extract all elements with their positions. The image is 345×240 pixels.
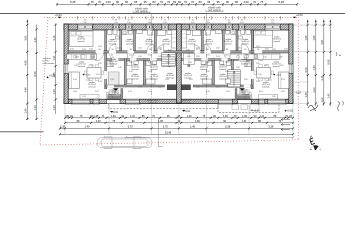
level mark entry right xyxy=(182,110,191,113)
svg-text:2,05: 2,05 xyxy=(148,71,152,73)
svg-text:2,05: 2,05 xyxy=(138,56,142,58)
dimension lines bottom xyxy=(59,117,294,136)
svg-text:laminalt: laminalt xyxy=(242,42,249,45)
svg-text:laminalt: laminalt xyxy=(78,65,85,68)
svg-text:2,05: 2,05 xyxy=(148,91,152,93)
svg-text:2,05: 2,05 xyxy=(165,79,169,81)
svg-text:70: 70 xyxy=(160,0,164,4)
svg-text:2,05: 2,05 xyxy=(189,79,193,81)
svg-text:2,05: 2,05 xyxy=(129,55,133,57)
svg-text:2,05: 2,05 xyxy=(206,62,210,64)
kitchen counters xyxy=(67,54,280,59)
svg-text:2,05: 2,05 xyxy=(226,91,230,93)
svg-text:1,31: 1,31 xyxy=(259,114,265,118)
svg-text:1,30: 1,30 xyxy=(33,105,37,111)
svg-text:2,05: 2,05 xyxy=(272,96,276,98)
svg-text:1,35: 1,35 xyxy=(94,114,100,118)
svg-text:2,05: 2,05 xyxy=(206,91,210,93)
exterior wall right xyxy=(289,24,293,104)
entry labels xyxy=(112,89,245,94)
svg-text:150: 150 xyxy=(163,22,166,24)
svg-text:2,05: 2,05 xyxy=(284,49,288,51)
exterior wall top xyxy=(64,24,293,30)
svg-text:laminalt: laminalt xyxy=(262,85,269,88)
svg-text:2,05: 2,05 xyxy=(256,63,260,65)
svg-text:1,65: 1,65 xyxy=(312,35,316,41)
svg-text:2,05: 2,05 xyxy=(216,56,220,58)
windows top wall xyxy=(76,24,281,30)
svg-text:2,05: 2,05 xyxy=(158,87,162,89)
svg-text:90: 90 xyxy=(130,49,132,51)
window left wall xyxy=(64,64,69,74)
svg-text:150: 150 xyxy=(148,22,151,24)
svg-text:90: 90 xyxy=(226,0,230,4)
terrace furniture xyxy=(232,105,259,111)
svg-text:1,02: 1,02 xyxy=(320,97,324,103)
svg-text:2,05: 2,05 xyxy=(280,65,284,67)
entry benches xyxy=(108,95,251,99)
entrance openings xyxy=(107,99,252,103)
svg-text:laminalt: laminalt xyxy=(109,42,116,45)
svg-text:80: 80 xyxy=(198,0,202,4)
exterior wall bottom xyxy=(64,99,293,103)
svg-text:2,05: 2,05 xyxy=(206,55,210,57)
svg-text:2,05: 2,05 xyxy=(279,57,283,59)
svg-text:70: 70 xyxy=(98,0,102,4)
svg-text:2,05: 2,05 xyxy=(148,55,152,57)
svg-text:2,05: 2,05 xyxy=(89,49,93,51)
svg-text:90: 90 xyxy=(99,49,101,51)
svg-text:1,40: 1,40 xyxy=(85,125,91,129)
svg-text:2,05: 2,05 xyxy=(75,57,79,59)
svg-text:+0,00: +0,00 xyxy=(85,74,91,76)
svg-text:2,05: 2,05 xyxy=(110,66,114,68)
hearth block left xyxy=(167,85,176,90)
svg-text:2,05: 2,05 xyxy=(82,96,86,98)
canopy dashed xyxy=(109,104,218,109)
svg-text:+0,00: +0,00 xyxy=(49,74,56,77)
svg-text:2,05: 2,05 xyxy=(98,81,102,83)
svg-text:szélfogó: szélfogó xyxy=(239,93,246,95)
interior wall h1 xyxy=(69,51,288,54)
boundary red bottom xyxy=(40,140,298,145)
svg-text:90: 90 xyxy=(112,49,114,51)
svg-text:laminalt: laminalt xyxy=(151,77,158,80)
svg-text:+0,00: +0,00 xyxy=(296,13,303,17)
svg-text:5,75: 5,75 xyxy=(128,125,134,129)
svg-text:+0,00: +0,00 xyxy=(55,13,62,17)
svg-text:75: 75 xyxy=(260,0,264,4)
svg-text:+0,00: +0,00 xyxy=(276,74,282,76)
svg-text:2,05: 2,05 xyxy=(187,56,191,58)
svg-text:nyomvonala: nyomvonala xyxy=(43,63,56,65)
dimension values top xyxy=(70,0,284,4)
svg-text:2,05: 2,05 xyxy=(110,57,114,59)
svg-text:2,05: 2,05 xyxy=(128,91,132,93)
dimension text left xyxy=(24,35,56,114)
svg-text:1,00: 1,00 xyxy=(105,0,111,4)
room labels xyxy=(77,37,282,96)
svg-text:1,40: 1,40 xyxy=(190,125,196,129)
dimension lines left xyxy=(26,20,57,121)
svg-text:laminalt: laminalt xyxy=(219,77,226,80)
svg-text:4,46: 4,46 xyxy=(24,87,28,93)
svg-text:1,40: 1,40 xyxy=(96,119,102,123)
level dots living xyxy=(83,74,282,77)
svg-text:70: 70 xyxy=(167,0,171,4)
window right wall xyxy=(288,64,293,74)
beds xyxy=(69,30,272,47)
svg-text:2,05: 2,05 xyxy=(188,62,192,64)
svg-text:2,05: 2,05 xyxy=(117,48,121,50)
svg-text:2,05: 2,05 xyxy=(236,67,240,69)
boundary red top xyxy=(44,17,298,19)
svg-text:5,75: 5,75 xyxy=(163,125,169,129)
leader arrows right xyxy=(281,119,290,131)
svg-text:+0,05: +0,05 xyxy=(287,110,294,113)
svg-text:2,05: 2,05 xyxy=(281,91,285,93)
svg-text:90: 90 xyxy=(160,49,162,51)
svg-text:1,31: 1,31 xyxy=(52,55,56,61)
entry door swing left xyxy=(107,93,114,100)
svg-text:2,05: 2,05 xyxy=(168,50,172,52)
svg-text:2,05: 2,05 xyxy=(73,91,77,93)
svg-text:2,05: 2,05 xyxy=(265,49,269,51)
svg-text:90: 90 xyxy=(226,49,228,51)
svg-text:2,02: 2,02 xyxy=(312,87,316,93)
hall cabinets xyxy=(109,53,195,85)
svg-text:2,05: 2,05 xyxy=(225,55,229,57)
extension line right xyxy=(206,14,208,25)
svg-text:2,05: 2,05 xyxy=(206,71,210,73)
svg-text:2,05: 2,05 xyxy=(86,80,90,82)
svg-text:1,31: 1,31 xyxy=(130,114,136,118)
terrace dashed right xyxy=(218,104,279,113)
svg-text:laminalt: laminalt xyxy=(163,42,170,45)
svg-text:laminalt: laminalt xyxy=(126,42,133,45)
svg-text:90: 90 xyxy=(207,49,209,51)
svg-text:2,05: 2,05 xyxy=(237,48,241,50)
entry arrow left xyxy=(113,88,119,91)
svg-text:2,05: 2,05 xyxy=(256,46,260,48)
svg-text:90: 90 xyxy=(125,0,129,4)
svg-text:laminalt: laminalt xyxy=(225,42,232,45)
interior walls xyxy=(104,30,253,99)
interior dims xyxy=(70,46,287,98)
svg-text:8,96: 8,96 xyxy=(327,59,331,65)
section line right xyxy=(205,25,207,104)
window size labels xyxy=(84,20,275,24)
svg-text:75: 75 xyxy=(91,0,95,4)
car xyxy=(98,137,152,149)
windows bottom wall xyxy=(71,99,287,104)
svg-text:1,30: 1,30 xyxy=(52,105,56,111)
svg-text:150: 150 xyxy=(114,22,117,24)
svg-text:2,05: 2,05 xyxy=(158,56,162,58)
bath fixtures xyxy=(108,30,251,84)
svg-text:5,28: 5,28 xyxy=(60,125,66,129)
door swings h1 xyxy=(96,44,263,61)
svg-text:2,05: 2,05 xyxy=(91,57,95,59)
svg-text:2,05: 2,05 xyxy=(244,79,248,81)
svg-text:tető vetülete: tető vetülete xyxy=(208,9,221,12)
svg-text:2,05: 2,05 xyxy=(98,63,102,65)
svg-text:szélfogó: szélfogó xyxy=(112,93,119,95)
svg-text:2,05: 2,05 xyxy=(70,49,74,51)
svg-text:laminalt: laminalt xyxy=(200,77,207,80)
svg-text:150: 150 xyxy=(191,22,194,24)
svg-text:90: 90 xyxy=(116,0,120,4)
svg-text:2,05: 2,05 xyxy=(138,48,142,50)
signature squiggle xyxy=(308,105,318,111)
sofas xyxy=(69,72,289,99)
svg-text:1,45: 1,45 xyxy=(304,35,308,41)
svg-text:3,16: 3,16 xyxy=(52,35,56,41)
svg-text:2,05: 2,05 xyxy=(118,67,122,69)
svg-text:2,05: 2,05 xyxy=(98,46,102,48)
svg-text:80: 80 xyxy=(152,0,156,4)
svg-text:2,05: 2,05 xyxy=(74,65,78,67)
svg-text:69: 69 xyxy=(178,0,182,4)
svg-text:2,05: 2,05 xyxy=(196,87,200,89)
svg-text:69: 69 xyxy=(173,0,177,4)
svg-text:5,28: 5,28 xyxy=(269,125,275,129)
svg-text:2,05: 2,05 xyxy=(158,48,162,50)
svg-text:1,45: 1,45 xyxy=(312,65,316,71)
svg-text:150: 150 xyxy=(84,22,87,24)
svg-text:2,05: 2,05 xyxy=(166,62,170,64)
svg-text:3,61: 3,61 xyxy=(320,39,324,45)
entry door swing right xyxy=(245,93,252,100)
level marker left xyxy=(55,13,62,18)
svg-text:2,05: 2,05 xyxy=(225,62,229,64)
level mark entry left xyxy=(110,111,119,114)
label eaves left xyxy=(133,7,150,12)
svg-text:1,60: 1,60 xyxy=(242,114,248,118)
svg-text:2,05: 2,05 xyxy=(82,49,86,51)
boundary red right xyxy=(297,18,299,140)
svg-text:150: 150 xyxy=(240,22,243,24)
svg-text:2,05: 2,05 xyxy=(264,65,268,67)
svg-text:95: 95 xyxy=(217,0,221,4)
svg-text:2,05: 2,05 xyxy=(110,79,114,81)
detail mark right xyxy=(336,52,341,57)
svg-text:90: 90 xyxy=(235,0,239,4)
svg-text:150: 150 xyxy=(127,22,130,24)
svg-text:1,31: 1,31 xyxy=(242,119,248,123)
svg-text:4,96: 4,96 xyxy=(24,60,28,66)
svg-text:8,96: 8,96 xyxy=(33,71,37,77)
svg-text:2,05: 2,05 xyxy=(225,71,229,73)
svg-text:tető vetülete: tető vetülete xyxy=(135,10,148,13)
stairs xyxy=(162,53,240,88)
svg-text:1,60: 1,60 xyxy=(195,119,201,123)
svg-text:90: 90 xyxy=(244,49,246,51)
level text right wall xyxy=(296,93,302,95)
svg-text:95: 95 xyxy=(207,0,211,4)
svg-text:1,45: 1,45 xyxy=(52,89,56,95)
svg-text:5,28: 5,28 xyxy=(70,0,76,4)
svg-text:-0,02: -0,02 xyxy=(185,110,191,113)
svg-text:1,35: 1,35 xyxy=(158,119,164,123)
svg-text:70: 70 xyxy=(191,0,195,4)
svg-text:2,05: 2,05 xyxy=(256,81,260,83)
svg-text:2,05: 2,05 xyxy=(167,56,171,58)
boundary red left xyxy=(40,18,48,145)
svg-text:2,05: 2,05 xyxy=(129,62,133,64)
svg-text:2,05: 2,05 xyxy=(148,62,152,64)
entry arrow right xyxy=(239,88,245,91)
svg-text:laminalt: laminalt xyxy=(89,85,96,88)
note block left xyxy=(43,58,56,65)
exterior wall left xyxy=(64,24,68,104)
svg-text:150: 150 xyxy=(271,22,274,24)
dining tables xyxy=(84,65,273,81)
svg-text:2,05: 2,05 xyxy=(244,57,248,59)
svg-text:laminalt: laminalt xyxy=(188,42,195,45)
svg-text:1,00: 1,00 xyxy=(243,0,249,4)
svg-text:2,05: 2,05 xyxy=(272,49,276,51)
svg-text:2,05: 2,05 xyxy=(258,74,262,76)
svg-text:-0,02: -0,02 xyxy=(113,111,119,114)
svg-text:5,28: 5,28 xyxy=(279,0,285,4)
svg-text:23,46: 23,46 xyxy=(165,131,172,135)
svg-text:laminalt: laminalt xyxy=(78,40,85,43)
svg-text:2,05: 2,05 xyxy=(196,56,200,58)
svg-text:95: 95 xyxy=(134,0,138,4)
dimension text bottom xyxy=(60,114,293,135)
svg-text:90: 90 xyxy=(257,49,259,51)
canopy labels xyxy=(147,99,192,104)
svg-text:2,05: 2,05 xyxy=(259,91,263,93)
level text bottom right xyxy=(285,110,294,113)
svg-text:95: 95 xyxy=(144,0,148,4)
level marker right xyxy=(293,13,303,18)
svg-text:1,45: 1,45 xyxy=(33,37,37,43)
svg-text:2,05: 2,05 xyxy=(216,87,220,89)
svg-text:2,05: 2,05 xyxy=(73,79,77,81)
level mark terrace xyxy=(251,109,260,112)
svg-text:3,50: 3,50 xyxy=(304,67,308,73)
svg-text:2,05: 2,05 xyxy=(90,65,94,67)
svg-text:2,05: 2,05 xyxy=(244,66,248,68)
svg-text:közlekedő: közlekedő xyxy=(181,102,191,104)
hearth block right xyxy=(181,85,190,90)
svg-text:2,05: 2,05 xyxy=(281,79,285,81)
horizontal rule xyxy=(0,12,345,14)
svg-text:1,35: 1,35 xyxy=(223,114,229,118)
svg-text:70: 70 xyxy=(184,0,188,4)
detail squiggle right low xyxy=(338,102,340,111)
svg-text:laminalt: laminalt xyxy=(273,40,280,43)
svg-text:90: 90 xyxy=(196,49,198,51)
section line left xyxy=(151,25,153,104)
svg-text:1,40: 1,40 xyxy=(24,108,28,114)
svg-text:1,40: 1,40 xyxy=(68,114,74,118)
svg-text:2,05: 2,05 xyxy=(186,50,190,52)
svg-text:laminalt: laminalt xyxy=(146,42,153,45)
level dot left xyxy=(47,74,56,78)
svg-text:1,45: 1,45 xyxy=(327,93,331,99)
svg-text:150: 150 xyxy=(228,22,231,24)
svg-text:2,05: 2,05 xyxy=(138,87,142,89)
svg-text:1,45: 1,45 xyxy=(304,92,308,98)
svg-text:1,40: 1,40 xyxy=(187,114,193,118)
svg-text:laminalt: laminalt xyxy=(132,77,139,80)
extension line left xyxy=(151,14,153,25)
svg-text:150: 150 xyxy=(207,22,210,24)
north arrow xyxy=(309,136,321,157)
svg-text:2,05: 2,05 xyxy=(216,48,220,50)
svg-text:közlekedő: közlekedő xyxy=(148,102,158,104)
dimension line top xyxy=(56,3,298,6)
svg-text:+0,00: +0,00 xyxy=(254,109,261,112)
fence marks xyxy=(77,16,280,19)
party wall xyxy=(177,24,182,103)
dimension lines right xyxy=(294,20,332,107)
svg-text:2,05: 2,05 xyxy=(95,91,99,93)
extension lines bottom xyxy=(65,104,294,147)
svg-text:5,28: 5,28 xyxy=(225,125,231,129)
svg-text:2,05: 2,05 xyxy=(96,74,100,76)
label eaves right xyxy=(206,6,223,11)
svg-text:laminalt: laminalt xyxy=(205,42,212,45)
svg-text:2,05: 2,05 xyxy=(129,71,133,73)
svg-text:70: 70 xyxy=(253,0,257,4)
svg-text:90: 90 xyxy=(149,49,151,51)
svg-text:2,05: 2,05 xyxy=(263,57,267,59)
svg-text:-0,02: -0,02 xyxy=(296,93,302,95)
svg-text:2,05: 2,05 xyxy=(196,48,200,50)
door width labels xyxy=(99,49,260,51)
svg-text:2,05: 2,05 xyxy=(268,80,272,82)
svg-text:3,61: 3,61 xyxy=(24,35,28,41)
svg-text:1,60: 1,60 xyxy=(111,114,117,118)
svg-text:3,11: 3,11 xyxy=(320,75,324,80)
crop line bottom left xyxy=(0,131,44,133)
dimension text right xyxy=(304,35,331,103)
